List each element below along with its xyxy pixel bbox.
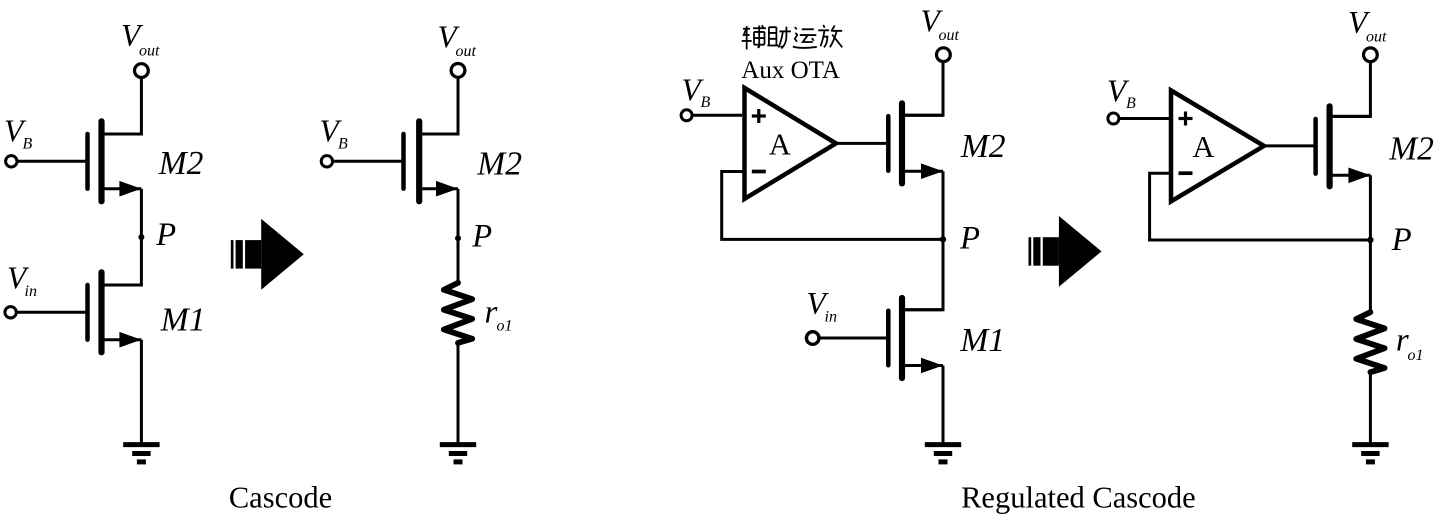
ground circuit1 xyxy=(123,442,159,447)
node Vin terminal circuit1 xyxy=(5,307,16,318)
svg-text:B: B xyxy=(338,136,348,153)
block arrow 1 xyxy=(231,240,234,269)
wire resistor to ground circuit4 xyxy=(1369,372,1372,444)
wire resistor to ground circuit2 xyxy=(457,343,460,445)
svg-text:o1: o1 xyxy=(1408,347,1424,364)
transistor M2 circuit2 source arrow xyxy=(436,181,458,197)
transistor M1 circuit3 drain wire xyxy=(902,308,943,311)
op-amp A circuit3 triangle xyxy=(745,88,837,199)
block arrow 2 xyxy=(1029,237,1032,266)
transistor M2 circuit2 channel bar xyxy=(416,121,422,201)
svg-text:in: in xyxy=(825,309,837,326)
transistor M1 circuit1 source arrow xyxy=(119,332,141,348)
node P dot circuit3 xyxy=(940,236,946,242)
transistor M1 circuit1 gate bar xyxy=(85,285,90,340)
svg-text:Regulated Cascode: Regulated Cascode xyxy=(961,481,1196,515)
ground circuit3 xyxy=(925,442,961,447)
wire M2 source to resistor circuit2 xyxy=(457,189,460,283)
node Vout terminal circuit1 xyxy=(135,64,149,78)
node Vout terminal circuit4 xyxy=(1364,48,1378,62)
svg-text:o1: o1 xyxy=(497,317,513,334)
transistor M1 circuit1 drain wire xyxy=(102,284,142,287)
transistor M1 circuit3 gate bar xyxy=(886,311,891,366)
wire feedback minus input to node P circuit3 xyxy=(722,172,943,240)
transistor M2 circuit1 source wire xyxy=(102,187,142,190)
transistor M2 circuit3 gate bar xyxy=(886,116,891,171)
svg-text:in: in xyxy=(25,283,37,300)
transistor M2 circuit4 drain wire xyxy=(1330,115,1371,118)
transistor M2 circuit2 drain wire xyxy=(419,133,458,136)
svg-text:B: B xyxy=(1126,95,1136,112)
node Vout terminal circuit2 xyxy=(451,64,465,78)
label Chinese aux amplifier xyxy=(742,25,843,49)
svg-text:P: P xyxy=(959,220,980,256)
transistor M2 circuit1 gate bar xyxy=(85,134,90,189)
resistor ro1 circuit4 zigzag xyxy=(1356,312,1384,372)
svg-text:M1: M1 xyxy=(160,301,206,338)
node P dot circuit1 xyxy=(138,234,144,240)
svg-text:out: out xyxy=(456,43,477,60)
wire M1 source to ground circuit1 xyxy=(140,340,143,445)
transistor M2 circuit2 gate bar xyxy=(401,134,406,189)
wire VB to M2 gate circuit2 xyxy=(333,160,402,163)
transistor M1 circuit3 channel bar xyxy=(899,298,905,378)
node P dot circuit4 xyxy=(1367,237,1373,243)
wire VB to op-amp plus input circuit4 xyxy=(1119,117,1169,120)
node Vout terminal circuit3 xyxy=(937,48,951,62)
op-amp A circuit4 minus input sign xyxy=(1179,171,1193,175)
transistor M2 circuit3 drain wire xyxy=(902,114,943,117)
wire Vout to M2 drain circuit1 xyxy=(102,77,142,134)
op-amp A circuit4 triangle xyxy=(1171,90,1264,201)
wire Vout to M2 drain circuit3 xyxy=(902,62,943,116)
svg-text:P: P xyxy=(155,217,176,253)
ground circuit4 xyxy=(1352,442,1388,447)
wire M1 source to ground circuit3 xyxy=(942,366,945,445)
node P dot circuit2 xyxy=(455,235,461,241)
transistor M1 circuit1 source wire xyxy=(102,338,142,341)
wire M2 source to resistor circuit4 xyxy=(1369,175,1372,312)
transistor M1 circuit3 source wire xyxy=(902,364,943,367)
transistor M2 circuit1 channel bar xyxy=(98,121,104,201)
node Vin terminal circuit3 xyxy=(806,332,819,345)
wire Vin to M1 gate circuit1 xyxy=(16,311,85,314)
resistor ro1 circuit2 zigzag xyxy=(444,283,472,343)
transistor M2 circuit4 source arrow xyxy=(1348,168,1370,184)
transistor M2 circuit1 drain wire xyxy=(102,133,142,136)
ground circuit2 xyxy=(440,442,476,447)
wire op-amp output to M2 gate circuit3 xyxy=(834,142,886,145)
svg-text:M2: M2 xyxy=(158,145,204,182)
svg-text:A: A xyxy=(769,127,791,161)
transistor M2 circuit4 channel bar xyxy=(1326,106,1332,186)
op-amp A circuit3 minus input sign xyxy=(752,170,766,174)
svg-text:M1: M1 xyxy=(959,322,1005,359)
op-amp A circuit3 plus input sign xyxy=(752,114,766,117)
svg-text:Aux OTA: Aux OTA xyxy=(741,57,840,84)
svg-text:M2: M2 xyxy=(960,128,1006,165)
svg-text:B: B xyxy=(701,94,711,111)
wire feedback minus input to node P circuit4 xyxy=(1150,173,1371,240)
wire Vout to M2 drain circuit2 xyxy=(419,77,458,134)
transistor M2 circuit3 source arrow xyxy=(921,163,943,179)
svg-text:P: P xyxy=(1391,222,1412,258)
svg-text:Cascode: Cascode xyxy=(229,480,332,514)
transistor M2 circuit3 source wire xyxy=(902,170,943,173)
node VB terminal circuit3 xyxy=(681,110,692,121)
svg-text:out: out xyxy=(939,27,960,44)
node VB terminal circuit2 xyxy=(321,156,332,167)
svg-text:out: out xyxy=(139,43,160,60)
node VB terminal circuit4 xyxy=(1108,113,1119,124)
wire M2 source to M1 drain circuit3 xyxy=(902,171,943,310)
svg-text:M2: M2 xyxy=(476,145,522,182)
transistor M1 circuit3 source arrow xyxy=(921,358,943,374)
svg-text:P: P xyxy=(471,219,492,255)
svg-text:B: B xyxy=(23,136,33,153)
wire VB to M2 gate circuit1 xyxy=(17,160,86,163)
wire VB to op-amp plus input circuit3 xyxy=(692,114,742,117)
transistor M2 circuit1 source arrow xyxy=(119,181,141,197)
svg-text:A: A xyxy=(1192,130,1214,164)
svg-text:M2: M2 xyxy=(1388,131,1434,168)
transistor M2 circuit4 gate bar xyxy=(1313,119,1318,174)
transistor M1 circuit1 channel bar xyxy=(98,272,104,352)
transistor M2 circuit3 channel bar xyxy=(899,103,905,183)
wire M2 source to M1 drain circuit1 xyxy=(102,189,142,285)
svg-text:out: out xyxy=(1366,28,1387,45)
node VB terminal circuit1 xyxy=(6,156,17,167)
transistor M2 circuit2 source wire xyxy=(419,187,458,190)
op-amp A circuit4 plus input sign xyxy=(1179,117,1193,120)
wire Vout to M2 drain circuit4 xyxy=(1330,62,1371,117)
wire Vin to M1 gate circuit3 xyxy=(820,337,887,340)
transistor M2 circuit4 source wire xyxy=(1330,174,1371,177)
wire op-amp output to M2 gate circuit4 xyxy=(1262,144,1313,147)
